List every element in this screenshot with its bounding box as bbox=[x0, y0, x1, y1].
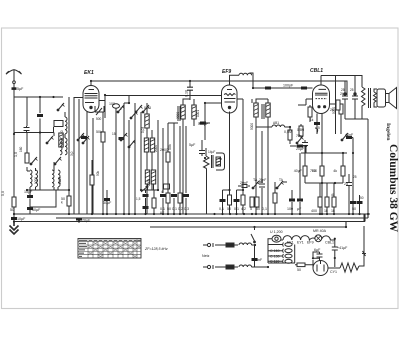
resistor grid stopper bbox=[308, 107, 312, 117]
wire x158 bbox=[157, 120, 159, 190]
svg-text:100pF: 100pF bbox=[283, 84, 294, 88]
long wire y95 bbox=[105, 95, 221, 97]
ground bbox=[10, 222, 19, 235]
svg-text:2000: 2000 bbox=[160, 148, 168, 152]
capacitor bbox=[346, 183, 352, 186]
zigzag resistor bbox=[340, 263, 359, 272]
coil box pair D bbox=[145, 170, 149, 184]
top bus wire bbox=[91, 81, 347, 95]
capacitor trimmer bbox=[24, 128, 30, 131]
coil bbox=[58, 170, 60, 187]
svg-text:0,03: 0,03 bbox=[144, 106, 151, 110]
svg-text:40: 40 bbox=[331, 193, 335, 197]
cap 500pF bbox=[200, 122, 206, 125]
svg-text:5nF: 5nF bbox=[256, 258, 263, 262]
mains upper bbox=[203, 243, 219, 247]
svg-text:10µF: 10µF bbox=[17, 217, 26, 221]
top right wire bbox=[321, 76, 362, 88]
resistor 0,5M left bbox=[299, 126, 303, 136]
svg-text:2: 2 bbox=[120, 107, 122, 111]
osc coil loop bbox=[216, 153, 225, 170]
capacitor bbox=[302, 143, 308, 146]
fuse bbox=[226, 265, 234, 269]
cap 30uF bbox=[104, 198, 110, 201]
svg-text:5: 5 bbox=[250, 207, 252, 211]
capacitor bbox=[242, 185, 248, 188]
capacitor bbox=[171, 194, 177, 197]
resistor bbox=[341, 166, 345, 176]
svg-text:MR 40A: MR 40A bbox=[313, 229, 327, 233]
EF9 anode coil bbox=[230, 75, 240, 85]
cap 10uF bbox=[164, 184, 170, 189]
blob cap under tube bbox=[314, 122, 320, 125]
coil bbox=[151, 170, 155, 184]
coil box top x147 bbox=[145, 114, 149, 128]
svg-text:0,1: 0,1 bbox=[172, 207, 177, 211]
svg-text:14µF: 14µF bbox=[208, 150, 215, 154]
svg-text:2000: 2000 bbox=[147, 179, 151, 186]
capacitor blob x116 bbox=[119, 137, 125, 140]
coil bbox=[239, 265, 252, 267]
svg-text:1000: 1000 bbox=[58, 177, 62, 184]
dial lamp bbox=[272, 235, 281, 242]
wire x129 bbox=[124, 96, 129, 103]
coil x65 bbox=[65, 117, 67, 134]
resistor right of tube bbox=[339, 104, 343, 114]
svg-text:1,5: 1,5 bbox=[136, 197, 141, 201]
cap 20uF bbox=[297, 145, 303, 148]
svg-text:C 150: C 150 bbox=[270, 249, 280, 253]
cap 20uF on bus bbox=[76, 218, 82, 221]
wire y183 bbox=[305, 182, 343, 184]
switch top bbox=[57, 103, 64, 111]
svg-text:Netz: Netz bbox=[202, 254, 210, 258]
switch row y136 bbox=[77, 133, 84, 141]
mid resistor row bbox=[303, 166, 307, 176]
svg-text:20nF: 20nF bbox=[259, 178, 266, 182]
svg-text:U 1,200: U 1,200 bbox=[270, 230, 283, 234]
resistor bbox=[178, 193, 182, 203]
capacitor bbox=[27, 195, 33, 198]
caps right low bbox=[350, 201, 356, 204]
svg-text:Columbus 38 GW: Columbus 38 GW bbox=[387, 144, 399, 233]
capacitor bbox=[357, 201, 363, 204]
resistor x168 bbox=[166, 152, 170, 162]
wire y153 bbox=[301, 152, 347, 154]
svg-text:50k: 50k bbox=[96, 170, 100, 176]
switch contact bbox=[130, 111, 137, 119]
wire x141 bbox=[140, 112, 142, 190]
svg-text:50: 50 bbox=[10, 208, 14, 212]
svg-text:0,10: 0,10 bbox=[185, 90, 189, 97]
selector box bbox=[268, 244, 295, 263]
resistor x91 low bbox=[90, 175, 94, 185]
svg-text:700: 700 bbox=[310, 169, 316, 173]
wire x180 x186 bbox=[179, 126, 181, 214]
wire x223 x230 bbox=[222, 190, 224, 214]
switch contact bbox=[252, 181, 259, 189]
mains switch vertical bbox=[254, 245, 256, 267]
capacitor bbox=[342, 96, 348, 99]
coil box mid-left bbox=[59, 133, 63, 147]
svg-text:0,3: 0,3 bbox=[184, 207, 189, 211]
svg-text:EK1: EK1 bbox=[84, 70, 94, 76]
svg-text:0,5M: 0,5M bbox=[297, 128, 304, 132]
wire EK1 right to y95 line bbox=[99, 96, 105, 119]
svg-text:100: 100 bbox=[109, 102, 115, 106]
coil bbox=[150, 138, 154, 152]
switch contact bbox=[142, 105, 149, 113]
svg-text:1k: 1k bbox=[310, 118, 314, 122]
svg-text:400: 400 bbox=[311, 209, 317, 213]
svg-text:25: 25 bbox=[344, 182, 348, 186]
psu right rail bbox=[363, 214, 365, 222]
svg-text:1000: 1000 bbox=[34, 177, 38, 184]
svg-text:0,1: 0,1 bbox=[219, 207, 224, 211]
resistor bbox=[241, 195, 245, 205]
svg-text:B: B bbox=[219, 158, 223, 160]
wire vertical x27 bbox=[26, 97, 28, 171]
capacitor bbox=[234, 199, 240, 202]
secondary zigzag bbox=[374, 92, 377, 103]
wire CBL1 left bbox=[298, 99, 313, 105]
cap 25uF bbox=[348, 179, 350, 192]
coil bbox=[192, 105, 196, 119]
resistor bbox=[325, 197, 329, 207]
svg-text:k: k bbox=[61, 201, 63, 205]
svg-text:2000: 2000 bbox=[154, 145, 158, 152]
svg-text:4: 4 bbox=[161, 190, 163, 194]
resistor 50ohm bbox=[297, 263, 305, 267]
wire x93 bbox=[92, 118, 94, 214]
coil det bbox=[256, 124, 272, 127]
svg-text:30µF: 30µF bbox=[103, 201, 112, 205]
coil pair A bbox=[30, 170, 32, 187]
resistor bbox=[228, 195, 232, 205]
switch contact bbox=[120, 133, 127, 141]
speaker bbox=[377, 89, 386, 107]
svg-text:15: 15 bbox=[112, 132, 116, 136]
resistor bbox=[320, 166, 324, 176]
switch TA2 bbox=[276, 181, 283, 189]
arrow mark bbox=[141, 186, 148, 192]
svg-text:1k: 1k bbox=[331, 209, 335, 213]
capacitor bbox=[143, 206, 149, 209]
bottom caps bbox=[250, 197, 254, 207]
osc transformer core bbox=[212, 155, 214, 168]
wire x256 down bbox=[255, 127, 257, 214]
capacitor blob 2 bbox=[301, 87, 307, 90]
svg-text:4,2: 4,2 bbox=[241, 207, 246, 211]
capacitor bbox=[199, 151, 205, 154]
wire EF9 right bbox=[237, 98, 243, 100]
switch mid-left bbox=[30, 157, 37, 165]
resistor 0,5M bbox=[288, 130, 292, 140]
x30 branch with caps bbox=[29, 190, 31, 214]
svg-text:CBL1: CBL1 bbox=[325, 241, 334, 245]
cap 5nF bbox=[252, 258, 258, 261]
wire x39 bbox=[39, 97, 41, 190]
coil bbox=[239, 243, 252, 245]
svg-text:5: 5 bbox=[318, 126, 320, 130]
mains lower bbox=[203, 265, 219, 269]
svg-text:2k: 2k bbox=[330, 108, 334, 112]
capacitor 100 top bbox=[113, 104, 120, 108]
svg-text:50: 50 bbox=[360, 196, 364, 200]
coil bbox=[36, 170, 38, 187]
resistor bbox=[332, 197, 336, 207]
cap 1uF osc bbox=[201, 140, 203, 156]
svg-text:15µF: 15µF bbox=[24, 190, 33, 194]
svg-text:160: 160 bbox=[19, 146, 23, 152]
resistor left rail bbox=[12, 197, 16, 207]
svg-text:EK1: EK1 bbox=[287, 241, 294, 245]
bottom row cluster 1 bbox=[160, 194, 166, 197]
svg-text:40µF: 40µF bbox=[294, 169, 303, 173]
coil bbox=[272, 125, 285, 127]
svg-text:5µF: 5µF bbox=[189, 143, 196, 147]
capacitor bbox=[352, 96, 358, 99]
osc resistor zigzag vertical bbox=[204, 156, 210, 169]
svg-text:TA: TA bbox=[253, 178, 258, 182]
svg-text:1,0: 1,0 bbox=[14, 152, 18, 157]
coil bbox=[239, 73, 252, 75]
resistor small bbox=[336, 100, 340, 110]
heater chain bbox=[281, 239, 283, 241]
cathode line bbox=[321, 114, 323, 154]
svg-text:0,1: 0,1 bbox=[234, 207, 239, 211]
capacitor bbox=[297, 199, 303, 202]
svg-text:50: 50 bbox=[256, 207, 260, 211]
capacitor blob bbox=[81, 136, 87, 139]
rectifier CY1 bbox=[313, 261, 328, 276]
tube CBL1 bbox=[313, 85, 330, 114]
svg-text:AB1: AB1 bbox=[273, 121, 279, 125]
pcap 20nF bbox=[304, 140, 306, 153]
capacitor bbox=[259, 184, 265, 187]
switch x129 bbox=[128, 140, 135, 148]
wire x54 bbox=[53, 127, 56, 190]
table X marks bbox=[88, 242, 140, 258]
svg-text:2k: 2k bbox=[340, 92, 344, 96]
capacitor blob anode bbox=[265, 87, 271, 90]
coil bbox=[266, 103, 270, 117]
resistor bbox=[166, 193, 170, 203]
wire y190 bbox=[141, 189, 158, 191]
svg-text:20µF: 20µF bbox=[82, 219, 91, 223]
wire x163 bbox=[162, 128, 164, 214]
capacitor bbox=[289, 199, 295, 202]
svg-text:0,5M: 0,5M bbox=[284, 130, 292, 134]
coil bbox=[65, 138, 67, 155]
svg-text:EY1: EY1 bbox=[297, 241, 304, 245]
coil bbox=[181, 105, 185, 119]
wire x174 bbox=[173, 123, 175, 214]
svg-text:50k: 50k bbox=[168, 144, 172, 150]
wire x205 bbox=[205, 122, 207, 214]
wire EK1 grid bbox=[74, 97, 83, 99]
svg-text:20µF: 20µF bbox=[296, 147, 305, 151]
coil pair B bbox=[52, 170, 54, 187]
output transformer primary zigzag bbox=[362, 87, 366, 108]
svg-text:5000: 5000 bbox=[250, 123, 254, 130]
svg-text:6µF: 6µF bbox=[314, 248, 321, 252]
fuse bbox=[226, 243, 234, 247]
svg-text:CBL1: CBL1 bbox=[310, 68, 323, 74]
coil bbox=[254, 103, 258, 117]
svg-text:50: 50 bbox=[352, 207, 356, 211]
resistor 1,0 bbox=[25, 153, 29, 163]
resistor bbox=[255, 197, 259, 207]
capacitor bbox=[346, 136, 352, 139]
svg-text:50: 50 bbox=[297, 268, 301, 272]
svg-text:25: 25 bbox=[353, 175, 357, 179]
svg-text:100: 100 bbox=[287, 207, 293, 211]
wire CY1 right bbox=[328, 267, 340, 269]
tube EK1 bbox=[83, 86, 99, 113]
wire EF9 left bbox=[205, 103, 222, 122]
svg-text:50µF: 50µF bbox=[32, 208, 41, 212]
svg-text:C 130: C 130 bbox=[270, 254, 280, 258]
right rail bbox=[362, 119, 368, 214]
antenna bbox=[6, 70, 22, 81]
switch contact bbox=[82, 136, 89, 144]
svg-text:1k: 1k bbox=[324, 209, 328, 213]
capacitor bbox=[143, 194, 149, 197]
svg-text:20nF: 20nF bbox=[240, 181, 249, 185]
svg-text:5,0: 5,0 bbox=[1, 191, 5, 196]
lamp bbox=[315, 235, 322, 242]
capacitor 0,10 bbox=[189, 81, 191, 100]
resistor bbox=[273, 193, 277, 203]
resistor x69 bbox=[67, 196, 71, 206]
capacitor bbox=[183, 194, 189, 197]
svg-text:0,2: 0,2 bbox=[178, 207, 183, 211]
svg-text:5µF: 5µF bbox=[17, 87, 24, 91]
left rail bbox=[13, 97, 15, 222]
wire x69 bbox=[68, 97, 70, 214]
capacitor bbox=[187, 87, 193, 90]
svg-text:+41µF: +41µF bbox=[337, 246, 348, 250]
squiggle mark bbox=[315, 128, 318, 133]
verticals bbox=[73, 97, 75, 214]
table header row text smudge bbox=[79, 239, 141, 241]
antenna coupling cap bbox=[12, 87, 17, 90]
wire y134 bbox=[14, 132, 54, 134]
svg-text:0,1: 0,1 bbox=[262, 207, 267, 211]
wire bottom join bbox=[27, 189, 69, 191]
switch contact bbox=[135, 105, 142, 113]
switch right bbox=[341, 133, 348, 141]
capacitor left rail bbox=[11, 217, 17, 220]
coil box x147b pair bbox=[144, 138, 148, 152]
resistor bbox=[152, 198, 156, 208]
svg-text:40nF: 40nF bbox=[345, 133, 354, 137]
bottom line bbox=[345, 108, 362, 119]
svg-text:70k: 70k bbox=[296, 134, 302, 138]
svg-text:50: 50 bbox=[227, 207, 231, 211]
lower res row bbox=[318, 197, 322, 207]
svg-text:1001: 1001 bbox=[196, 110, 200, 117]
switch contact bbox=[46, 136, 53, 144]
wire x124 bbox=[123, 103, 125, 214]
svg-text:EF9: EF9 bbox=[222, 69, 231, 75]
switch contact bbox=[296, 136, 303, 144]
capacitor bbox=[27, 207, 33, 210]
table row label smudges bbox=[79, 243, 87, 256]
coil pair C bbox=[60, 138, 62, 155]
svg-text:0,03: 0,03 bbox=[141, 127, 145, 133]
svg-text:C 110: C 110 bbox=[270, 260, 279, 264]
wire x262 bbox=[261, 131, 263, 214]
svg-text:3000: 3000 bbox=[176, 112, 180, 119]
cap 20nF + TA switch bbox=[238, 185, 250, 187]
wire antenna base bbox=[14, 96, 63, 98]
switch row under EK1 bbox=[117, 105, 124, 113]
wire x268 bbox=[268, 124, 275, 214]
caps bottom row osc bbox=[220, 199, 226, 202]
cap 4uF bbox=[317, 254, 323, 257]
svg-text:4k: 4k bbox=[333, 169, 337, 173]
svg-text:ZF=128,5 kHz: ZF=128,5 kHz bbox=[144, 247, 168, 251]
svg-text:30: 30 bbox=[60, 130, 64, 134]
svg-text:3,0: 3,0 bbox=[70, 151, 74, 156]
svg-text:50: 50 bbox=[167, 207, 171, 211]
wire x135 bbox=[134, 103, 136, 214]
cap 41uF bbox=[332, 247, 338, 250]
svg-text:CY1: CY1 bbox=[330, 270, 337, 274]
svg-text:EF9: EF9 bbox=[307, 241, 314, 245]
capacitor blob x39 bbox=[37, 114, 43, 117]
pot under EK1 bbox=[95, 106, 104, 112]
tube EF9 bbox=[222, 85, 238, 113]
svg-text:500pF: 500pF bbox=[198, 122, 209, 126]
svg-text:500: 500 bbox=[96, 117, 102, 121]
svg-text:25: 25 bbox=[350, 88, 354, 92]
svg-text:50k: 50k bbox=[96, 130, 102, 134]
switch contact bbox=[54, 157, 61, 165]
resistor x103 bbox=[101, 132, 105, 142]
svg-text:Ingelen: Ingelen bbox=[385, 123, 391, 140]
